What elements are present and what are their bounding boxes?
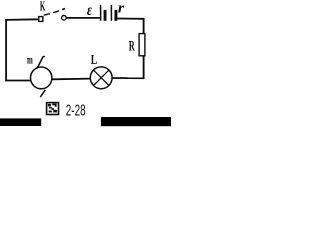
wire lamp to motor bbox=[53, 78, 91, 81]
switch K blade (dashed, open) bbox=[44, 9, 65, 16]
wire battery to top-right corner bbox=[117, 18, 144, 20]
bottom right black bar bbox=[101, 117, 171, 126]
battery plate short 2 (thick) bbox=[115, 10, 118, 21]
motor m circle bbox=[31, 67, 52, 89]
lamp L cross diagonal 1 bbox=[94, 70, 109, 85]
motor bottom diagonal tick bbox=[40, 90, 45, 97]
battery plate long 1 bbox=[100, 5, 102, 21]
svg-text:m: m bbox=[27, 53, 33, 67]
switch K terminal square bbox=[39, 17, 43, 22]
svg-text:K: K bbox=[40, 0, 45, 15]
svg-text:R: R bbox=[129, 39, 135, 55]
lamp L cross diagonal 2 bbox=[94, 70, 109, 85]
wire bottom-right horizontal bbox=[113, 77, 145, 79]
svg-text:ε: ε bbox=[87, 2, 93, 19]
switch K terminal circle bbox=[62, 15, 67, 20]
motor top diagonal tick bbox=[37, 56, 45, 68]
battery plate long 2 bbox=[110, 5, 112, 21]
svg-text:L: L bbox=[91, 52, 98, 67]
wire bottom-left horizontal bbox=[5, 80, 30, 82]
wire right vertical lower bbox=[143, 56, 145, 79]
wire right vertical upper bbox=[143, 18, 145, 34]
caption character 图 bbox=[47, 103, 59, 115]
resistor R body bbox=[139, 34, 145, 56]
svg-text:r: r bbox=[118, 0, 124, 16]
battery plate short 1 (thick) bbox=[104, 10, 107, 21]
svg-text:2-28: 2-28 bbox=[66, 103, 86, 120]
bottom left black bar bbox=[0, 118, 41, 126]
wire switch to battery bbox=[66, 17, 100, 19]
wire left vertical bbox=[5, 19, 7, 81]
wire top-left horizontal bbox=[5, 18, 38, 21]
lamp L circle bbox=[90, 67, 112, 89]
